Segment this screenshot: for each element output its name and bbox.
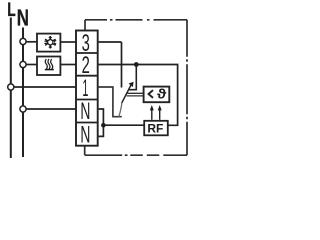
- terminal circle on N: [20, 106, 26, 112]
- enclosure dash-dot border top: [85, 19, 187, 21]
- RF signal arrow 1: [151, 110, 153, 120]
- heating load box: [37, 57, 60, 76]
- wire terminal2 feed line: [99, 65, 178, 126]
- wire NC contact vertical: [121, 42, 123, 88]
- terminal circle on N for cooling: [20, 38, 26, 44]
- RF receiver box U2: [144, 121, 168, 136]
- enclosure dash-dot border bottom-left segment: [84, 145, 86, 156]
- junction dot on terminal2 feed: [134, 62, 139, 67]
- svg-text:ϑ: ϑ: [157, 86, 167, 102]
- wire mains L to terminal1: [14, 86, 76, 88]
- terminal divider 3/2: [76, 52, 98, 54]
- heating waves icon: [45, 59, 54, 70]
- enclosure dash-dot border right: [186, 20, 188, 155]
- terminal circle on N for heating: [20, 61, 26, 67]
- RF signal arrow 2: [159, 110, 161, 120]
- terminal divider N/N: [76, 122, 98, 124]
- sensor less-than symbol: [149, 90, 154, 98]
- junction dot on N jumper: [101, 123, 106, 128]
- terminal circle on L: [8, 84, 14, 90]
- wire terminal1 to switch common: [99, 87, 122, 117]
- cooling snowflake icon: [44, 36, 56, 49]
- wire terminal N jumper bracket: [99, 109, 104, 136]
- wire NO contact drop: [129, 65, 136, 90]
- wire N to heating load: [26, 64, 37, 66]
- wire cooling load to terminal3: [60, 41, 76, 43]
- wire RF supply from N: [103, 124, 144, 126]
- enclosure dash-dot border bottom: [85, 154, 187, 156]
- relay switch blade Q: [119, 103, 122, 117]
- terminal divider 2/1: [76, 75, 98, 77]
- wire terminal3 to corner: [99, 41, 122, 43]
- terminal divider 1/N: [76, 99, 98, 101]
- svg-text:RF: RF: [147, 122, 163, 136]
- wire heating load to terminal2: [60, 64, 76, 66]
- wire N to cooling load: [26, 41, 37, 43]
- thermostat sensor box U1: [144, 87, 170, 103]
- enclosure dash-dot border top-left segment: [84, 20, 86, 30]
- svg-text:N: N: [80, 121, 90, 148]
- wire L line: [10, 18, 12, 159]
- terminal block outline: [76, 31, 98, 146]
- wire mains N to terminal N: [26, 108, 76, 110]
- wire N line: [22, 28, 24, 158]
- cooling load box: [37, 34, 60, 52]
- svg-text:N: N: [17, 5, 29, 31]
- mechanical link double line to sensor: [127, 92, 144, 94]
- relay blade arrowhead: [129, 82, 134, 87]
